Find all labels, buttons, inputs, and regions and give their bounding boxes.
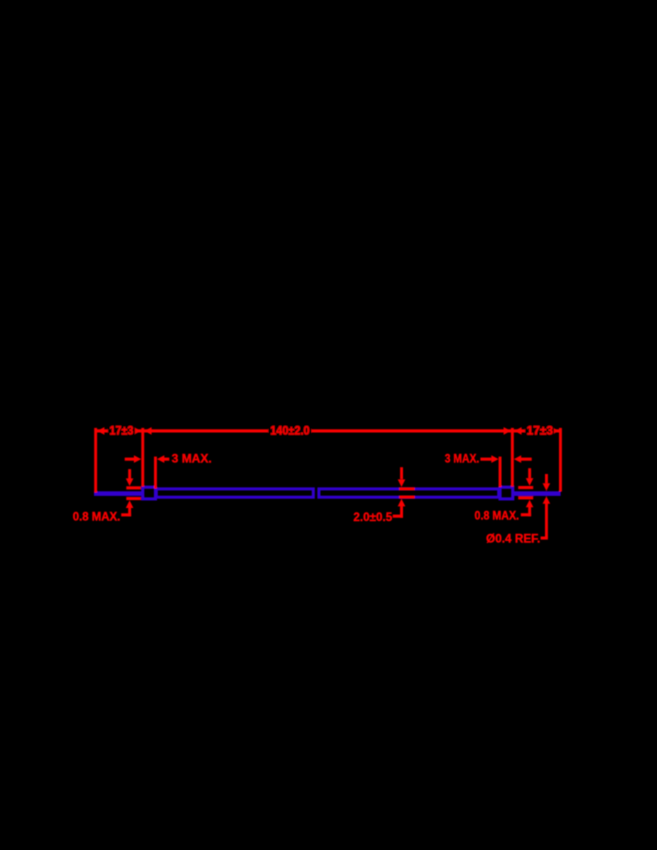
lead dia left: elbow [121, 513, 131, 516]
wire dia dim: upper arrow shaft [545, 474, 548, 483]
3 MAX left dim: right arrowhead pointing left [157, 455, 164, 463]
svg-text:0.8 MAX.: 0.8 MAX. [475, 511, 520, 523]
arrowhead at E5 pointing left [514, 427, 521, 435]
lead dia left: upper tick [126, 486, 141, 489]
lead dia right: upper arrow shaft [528, 468, 531, 478]
lead dia left: lower arrow shaft [128, 508, 131, 517]
svg-text:17±3: 17±3 [110, 425, 134, 437]
lead dia right: lower arrow shaft [528, 507, 531, 516]
svg-text:17±3: 17±3 [527, 425, 553, 437]
body left half [156, 489, 313, 497]
body dia dim: upper arrow shaft [400, 467, 403, 479]
extension line E3 left cap inner [154, 457, 157, 489]
body dia dim: elbow [393, 515, 403, 518]
right end cap [500, 487, 513, 499]
extension line E5 right cap outer [511, 428, 514, 487]
arrowhead mid-right pointing right [504, 427, 511, 435]
3 MAX right dim: right arrow tail [521, 458, 532, 461]
body dia dim: lower arrow shaft [400, 506, 403, 518]
body dia dim: lower arrowhead pointing up [398, 499, 406, 507]
lead dia left: upper arrowhead pointing down [126, 478, 134, 486]
right lead [513, 491, 561, 496]
svg-text:3 MAX.: 3 MAX. [172, 453, 212, 465]
3 MAX right dim: right arrowhead pointing left [514, 455, 521, 463]
wire dia dim: elbow [541, 537, 548, 540]
text bg 17±3 right [525, 425, 554, 437]
svg-text:Ø0.4 REF.: Ø0.4 REF. [486, 533, 540, 545]
arrowhead mid-left pointing left [144, 427, 151, 435]
extension line E6 right lead end [559, 428, 562, 492]
lead dia right: elbow [521, 513, 531, 516]
lead dia right: upper arrowhead pointing down [526, 478, 534, 486]
wire dia dim: lower arrowhead pointing up [543, 496, 551, 504]
wire dia dim: lower arrow shaft [545, 504, 548, 538]
3 MAX left dim: right arrow tail [164, 458, 170, 461]
text bg 17±3 left [108, 425, 135, 437]
extension line E4 right cap inner [499, 457, 502, 487]
wire dia dim: upper arrowhead pointing down [543, 483, 551, 491]
lead dia left: upper arrow shaft [128, 469, 131, 479]
body right half [319, 489, 499, 497]
arrowhead at E6 pointing right [552, 427, 559, 435]
left lead [94, 491, 142, 496]
lead dia right: upper tick [518, 486, 533, 489]
body dia dim: upper tick [399, 487, 415, 490]
left end cap [143, 487, 156, 499]
arrowhead at E2 pointing right [134, 427, 141, 435]
svg-text:140±2.0: 140±2.0 [270, 425, 309, 437]
main dimension line [97, 429, 561, 432]
body dia dim: lower tick [399, 496, 415, 499]
svg-text:2.0±0.5: 2.0±0.5 [353, 512, 392, 524]
lead dia left: lower tick [126, 497, 141, 500]
lead dia right: lower tick [518, 496, 533, 499]
svg-text:0.8 MAX.: 0.8 MAX. [73, 512, 121, 524]
body dia dim: upper arrowhead pointing down [398, 479, 406, 487]
3 MAX left dim: left arrowhead pointing right [134, 455, 141, 463]
arrowhead at E1 pointing left [97, 427, 104, 435]
extension line E1 left lead end [94, 428, 97, 493]
svg-text:3 MAX.: 3 MAX. [445, 453, 479, 465]
text bg 140±2.0 [268, 425, 311, 437]
lead dia left: lower arrowhead pointing up [126, 500, 134, 508]
3 MAX right dim: left arrowhead pointing right [491, 455, 498, 463]
lead dia right: lower arrowhead pointing up [526, 500, 534, 508]
3 MAX left dim: left arrow tail [125, 458, 136, 461]
extension line E2 left cap outer [141, 428, 144, 487]
3 MAX right dim: left arrow tail [480, 458, 491, 461]
